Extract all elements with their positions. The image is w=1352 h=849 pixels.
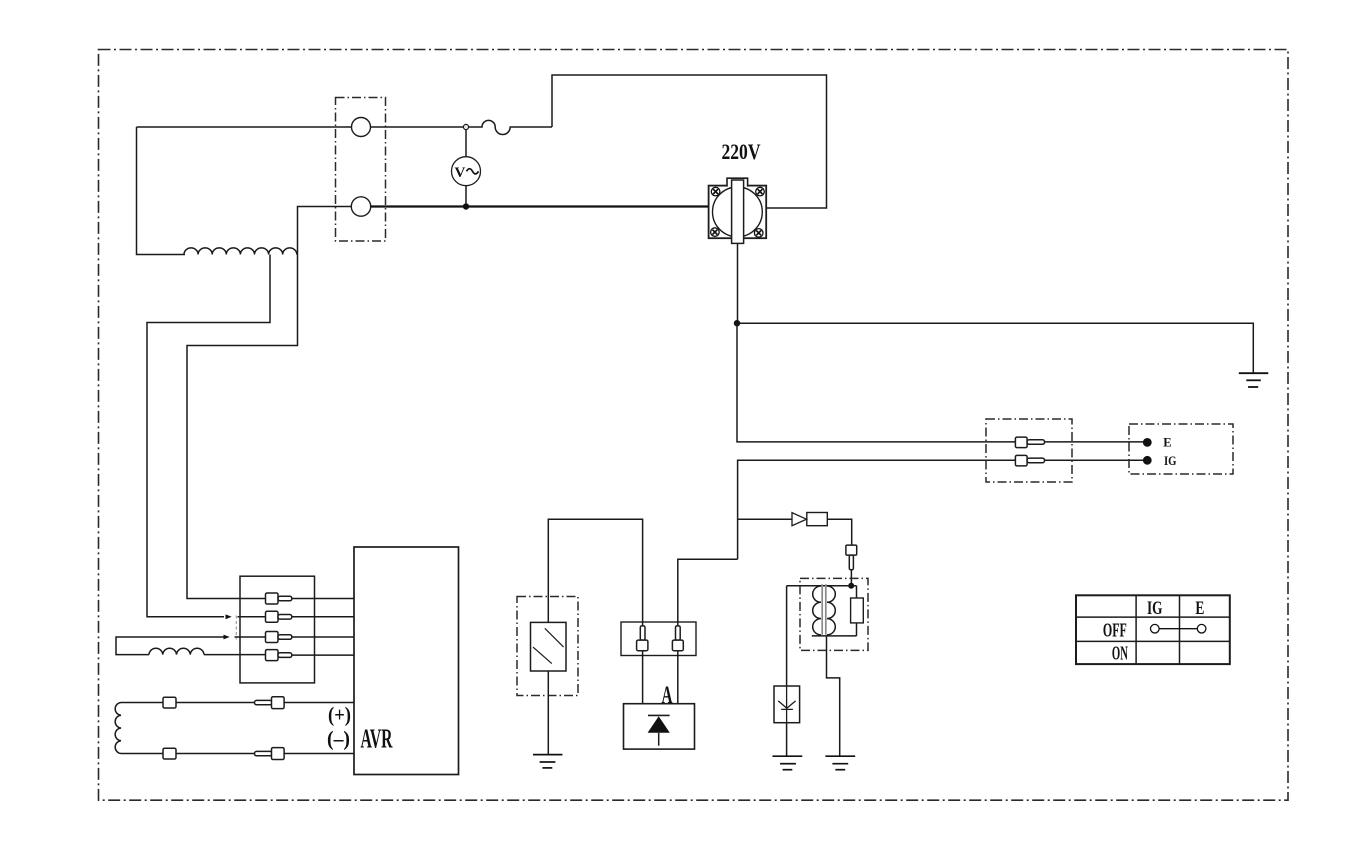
connector pin left [640,626,645,640]
wire pin4 to AVR [292,654,354,656]
svg-text:(+): (+) [328,703,351,727]
connector square top [163,697,176,708]
screw top-left [711,187,720,196]
diode module A [648,714,670,716]
wire coil to spark plug [786,586,788,686]
wire main winding left lead [137,127,186,255]
svg-text:V: V [455,165,466,181]
svg-text:ON: ON [1112,642,1128,664]
wire secondary to ground [827,636,840,756]
wire IG to CN4 [678,559,738,626]
terminal dot E [1143,438,1152,447]
wire main winding top lead [137,126,352,128]
receptacle 220V body [709,186,767,239]
connector pin top [255,700,273,704]
node test point [463,124,468,129]
wire brush row 2 to connector [238,616,266,618]
inductor ignition primary [813,586,821,635]
wire IG branch to diode [738,518,792,520]
svg-text:IG: IG [1147,598,1163,619]
junction dot primary [848,583,854,589]
wire IG line [738,460,1144,559]
switch link [1159,628,1197,630]
junction dot neutral [734,320,740,326]
wire neutral to frame ground [737,323,1253,373]
connector block CN2 [240,576,315,683]
switch contact E [1197,624,1206,633]
resistor [851,598,864,623]
connector pin IG [1015,455,1027,466]
svg-text:OFF: OFF [1103,619,1127,641]
svg-text:220V: 220V [722,139,761,164]
wire field winding to connector row 4 [204,654,266,656]
wire over the top to receptacle right [552,75,827,208]
connector pin E [1015,437,1027,448]
ground capacitor [533,755,562,768]
plug blade cap [727,178,748,186]
inductor ignition secondary [827,586,835,635]
ground spark plug [773,756,803,770]
wire CN4 to module A left [642,651,644,704]
capacitor body [531,622,567,671]
connector square bottom [163,748,176,759]
screw bottom-left [711,228,720,237]
diode D1 [792,513,807,526]
junction dot voltmeter [463,203,469,209]
terminal circle 2 [351,197,370,216]
svg-text:AVR: AVR [361,724,393,754]
inductor exciter winding [115,703,121,754]
receptacle face circle [713,187,763,237]
screw top-right [756,187,765,196]
wire capacitor top link [548,519,642,626]
wire exciter top to AVR plus [121,702,354,704]
suppressor [807,513,828,526]
terminal circle 1 [352,118,371,137]
capacitor box [517,597,578,696]
voltmeter V~ [452,157,481,186]
wire pin2 to AVR [292,616,354,618]
switch table [1076,595,1230,664]
brush arrow 2 [224,635,230,640]
wire node to voltmeter [465,130,467,157]
ignition coil box [800,578,868,650]
ground secondary [825,756,855,770]
wire capacitor to ground [547,671,549,754]
connector pin primary [849,555,853,570]
connector block CN4 [621,622,696,656]
plug blade [732,180,744,243]
engine stop switch box [1129,424,1233,474]
receptacle connector box [336,98,386,242]
wire terminal1 to fuse [371,126,464,128]
slip ring line [235,616,237,640]
connector pin 2 [266,611,279,622]
wire resistor bottom [856,623,858,636]
wire main output [371,205,709,207]
fuse [469,120,552,134]
wire suppressor to primary [827,519,851,545]
core lines [822,584,826,635]
connector pin 4 [266,650,279,661]
wire pin to coil [850,570,852,583]
connector pin bottom [255,751,273,755]
wire brush row 3 to connector [235,636,266,638]
wire resistor top [856,586,858,598]
brush arrow 1 [226,614,232,619]
connector pin 3 [266,632,279,643]
switch contact IG [1151,624,1160,633]
wire voltmeter to main wire [465,186,467,204]
wire pin3 to AVR [292,636,354,638]
terminal dot IG [1143,456,1152,465]
svg-text:E: E [1195,598,1204,619]
wire from terminal 2 down to AVR sense connector [187,207,352,599]
ground frame [1239,373,1269,387]
wire E line [737,323,1144,442]
svg-text:E: E [1163,435,1171,449]
module A [624,704,695,749]
wire exciter bottom to AVR minus [121,753,354,755]
inductor rotor field winding [149,648,204,654]
svg-text:IG: IG [1164,453,1177,468]
screw bottom-right [754,229,763,238]
inductor main stator winding [184,248,297,255]
wire coil bottom bus [812,635,857,637]
svg-text:(–): (–) [327,727,350,751]
wire pin1 to AVR [292,598,354,600]
spark plug [774,686,800,723]
wire coil top bus [787,585,857,587]
connector square primary [846,545,857,555]
AVR unit [354,547,459,775]
wire winding center tap to connector row 2 [147,255,270,617]
wire CN4 to module A right [677,651,679,704]
wire receptacle neutral down [737,243,739,323]
connector box CN3 [986,419,1072,482]
wire rotor brush row 3 [116,637,225,655]
wire spark plug to ground [786,723,788,756]
svg-text:A: A [662,682,673,709]
connector pin 1 [266,593,279,604]
connector pin right [676,626,681,640]
